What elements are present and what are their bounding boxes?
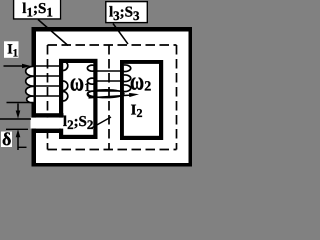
gap extension line upper bbox=[0, 118, 31, 120]
svg-text:l3;S3: l3;S3 bbox=[109, 5, 140, 23]
svg-text:I2: I2 bbox=[131, 103, 143, 121]
current I2 arrowhead bbox=[129, 93, 139, 97]
leader line l3;S3 bbox=[113, 24, 128, 45]
air gap slot bbox=[31, 118, 64, 129]
winding W2 right arc 1 bbox=[124, 65, 131, 72]
svg-text:ω: ω bbox=[70, 67, 84, 96]
winding W2 wire 1 bbox=[94, 70, 124, 72]
air gap upper face bbox=[32, 113, 64, 117]
svg-text:δ: δ bbox=[2, 129, 11, 149]
current I2 wire bbox=[89, 95, 131, 98]
gap extension line lower bbox=[6, 128, 28, 130]
winding W2 bottom turn bbox=[88, 90, 124, 98]
current I1 arrowhead bbox=[22, 64, 31, 68]
svg-text:2: 2 bbox=[144, 80, 151, 95]
winding W2 left arc 3 bbox=[87, 91, 93, 97]
label box l3;S3 bbox=[106, 2, 148, 23]
leader line l1;S1 bbox=[38, 20, 68, 46]
winding W2 right arc 2 bbox=[124, 75, 131, 82]
right window frame bbox=[120, 60, 163, 140]
winding W2 wire 3 bbox=[94, 90, 124, 92]
winding W1 outer arc 1 bbox=[26, 66, 34, 76]
winding W1 inner arc 2 bbox=[63, 81, 68, 91]
gap dimension arrow up bbox=[17, 137, 19, 150]
winding W2 right arc 3 bbox=[124, 85, 131, 92]
winding W2 left arc 2 bbox=[87, 78, 93, 84]
mean path dashed left bbox=[47, 45, 49, 150]
svg-text:l2;S2: l2;S2 bbox=[63, 114, 94, 132]
winding W2 left arc 1 bbox=[87, 65, 93, 71]
gap dimension arrow down bbox=[17, 104, 19, 113]
mean path dashed bottom bbox=[48, 149, 177, 151]
svg-text:l1;S1: l1;S1 bbox=[22, 1, 53, 19]
leader line l2;S2 bbox=[92, 117, 112, 128]
svg-text:1: 1 bbox=[84, 80, 90, 94]
gap dimension tail tick bbox=[18, 146, 27, 148]
winding W2 wire 2 bbox=[94, 80, 124, 82]
winding W1 outer arc 3 bbox=[26, 86, 34, 96]
winding W1 wire 2 bbox=[33, 75, 63, 77]
mean path dashed right bbox=[176, 45, 178, 150]
winding W1 exit wire bbox=[7, 102, 34, 104]
air gap lower face bbox=[32, 129, 62, 133]
winding W1 outer exit arc bbox=[27, 96, 34, 102]
label box delta bbox=[1, 132, 12, 148]
winding W1 wire 4 bbox=[33, 95, 63, 97]
svg-text:ω: ω bbox=[130, 66, 144, 95]
winding W1 inner arc 3 bbox=[63, 92, 68, 102]
winding W1 wire 1 bbox=[33, 65, 63, 67]
center limb axis dashed bbox=[108, 45, 110, 150]
winding W1 entry wire bbox=[4, 65, 25, 67]
label box l1;S1 bbox=[13, 0, 61, 20]
right window interior bbox=[124, 64, 159, 136]
mean path dashed top bbox=[48, 44, 177, 46]
left window interior bbox=[63, 63, 93, 135]
core outer frame bbox=[32, 27, 193, 167]
left window frame bbox=[59, 59, 98, 139]
core interior bbox=[32, 27, 193, 167]
winding W1 wire 3 bbox=[33, 85, 63, 87]
winding W1 outer arc 2 bbox=[26, 76, 34, 86]
winding W1 inner arc 1 bbox=[63, 61, 68, 71]
label box I1 bbox=[4, 41, 19, 58]
